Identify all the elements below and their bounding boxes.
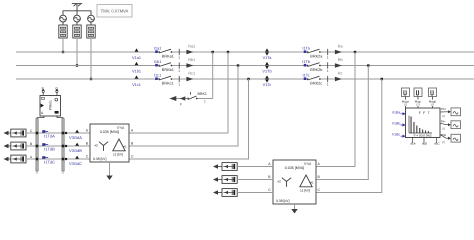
ground T2 [294,204,296,210]
svg-text:V1Ta: V1Ta [263,55,273,60]
breaker BRK2c [307,76,323,85]
svg-text:Ph+: Ph+ [441,107,447,111]
node source tap c [90,78,92,80]
svg-text:B: B [30,142,32,146]
voltmeter probe V3GdC [75,156,79,159]
svg-text:Ra1: Ra1 [188,45,195,49]
voltmeter probe V3GdB [75,143,79,146]
svg-text:V3GdB: V3GdB [69,148,82,153]
phase output Ph0 to monitor box [440,133,461,144]
output channel box Mag+ [402,88,410,108]
AC source Src2 [74,15,81,22]
svg-text:(7): (7) [442,115,445,118]
svg-text:0.38 [kV]: 0.38 [kV] [93,157,106,161]
wire bus phase B [16,65,474,67]
label box "TMV, 0.07MVA" [97,5,132,18]
wire source a drop to bus [62,38,64,52]
svg-text:BRK2b: BRK2b [310,68,322,72]
svg-text:V1Tb: V1Tb [262,69,271,74]
svg-text:V1Ba: V1Ba [392,110,401,114]
node tap T1 phase b [237,64,239,66]
svg-text:(7): (7) [442,128,445,131]
svg-text:P: P [42,86,44,90]
node right bar b [62,145,65,148]
dc output dcA [410,138,415,146]
transformer T2 [273,160,316,204]
svg-text:DYg1: DYg1 [117,125,125,129]
surge arrester T2 phase b [213,177,218,181]
voltmeter probe V1c1 [132,75,141,87]
node tap T2 phase c [381,78,383,80]
surge arrester left phase b [4,144,9,148]
busbar left [36,119,38,172]
wire between bars row a + ammeter [38,132,62,134]
wire PMet1 to right bar [57,116,63,119]
svg-text:V1Bb: V1Bb [392,122,401,126]
pin P of PMet1 [42,86,45,95]
svg-text:1: 1 [327,55,329,59]
svg-text:I1TdA: I1TdA [44,133,55,138]
svg-text:11 [kV]: 11 [kV] [300,188,310,192]
svg-text:1: 1 [178,55,180,59]
svg-text:#2: #2 [278,180,282,184]
FFT block U-FFT [406,108,441,138]
breaker BRK2b [307,63,323,72]
svg-text:DYg1: DYg1 [304,161,312,165]
wire T1 c riser [129,79,249,159]
ground (top of sources) [72,4,82,11]
pin Q of PMet1 [55,86,58,95]
output channel box Mag0 [429,88,437,108]
breaker BRKa1 [158,49,174,58]
svg-text:V1Tc: V1Tc [263,82,272,87]
ground arrow (fault) [170,96,177,101]
data label V1Bb (FFT input) [392,122,406,127]
phase output Ph- to monitor box [440,120,461,131]
svg-text:#2: #2 [95,144,99,148]
ammeter arrow Rc1 [186,77,193,82]
svg-text:1: 1 [204,100,206,104]
svg-text:I1TdB: I1TdB [44,146,55,151]
svg-text:Ph0: Ph0 [441,133,447,137]
breaker state tick [178,62,180,68]
svg-text:V3GdA: V3GdA [69,135,82,140]
voltmeter probe V1a1 [132,48,141,60]
svg-text:dcA: dcA [410,141,415,145]
svg-text:Rc: Rc [338,72,343,76]
voltmeter probe V1Ta [263,48,273,60]
wire source b drop to bus [76,38,78,66]
wire right bar to T1 b [64,145,90,147]
AC source Src3 [88,15,95,22]
wire right bar to T1 c [64,158,90,160]
wire bus phase A [16,51,474,53]
breaker BRK2a [307,49,324,58]
voltmeter probe V1b1 [132,62,141,74]
svg-text:Rb1: Rb1 [188,58,195,62]
surge arrester left phase c [4,157,9,161]
wire T2 b riser [316,66,368,180]
svg-text:F = 50.0 [Hz]: F = 50.0 [Hz] [414,134,432,138]
svg-text:Rb: Rb [338,58,343,62]
svg-text:#1: #1 [310,181,314,185]
wire bus phase C [16,78,474,80]
node tap T1 phase c [247,78,249,80]
svg-text:I1TdC: I1TdC [44,159,55,164]
surge arrester left phase a [4,131,9,135]
surge arrester T2 phase c [213,190,218,194]
svg-text:BRK2c: BRK2c [310,82,322,86]
svg-text:BRK2a: BRK2a [310,55,323,59]
breaker BRKb1 [158,63,174,72]
breaker state tick [178,49,180,55]
wire T2 a riser [316,52,355,167]
svg-text:V1c1: V1c1 [132,82,141,87]
node source tap a [62,51,64,53]
svg-text:Ph-: Ph- [441,120,446,124]
node left bar c [36,158,39,161]
svg-text:0.38 [kV]: 0.38 [kV] [276,199,289,203]
node left bar b [36,145,39,148]
dc output dcC [434,138,440,146]
node tap T1 phase a [227,51,229,53]
output channel box Mag- [414,88,422,108]
node right bar c [62,158,65,161]
svg-text:1: 1 [327,69,329,73]
data label V1Bc (FFT input) [392,133,406,138]
svg-text:V1Bc: V1Bc [392,133,401,137]
svg-text:BRKb1: BRKb1 [162,68,174,72]
wire fault branch vertical [212,52,214,99]
ground T1 [109,162,111,176]
svg-text:Rc1: Rc1 [188,72,195,76]
node tap T2 phase b [367,64,369,66]
wire between bars row c + ammeter [38,158,62,160]
voltmeter probe V1Tc [263,75,272,87]
source impedance box Z3 [90,22,92,25]
breaker BRKc1 [158,76,174,85]
svg-text:TMV, 0.07MVA: TMV, 0.07MVA [101,9,129,14]
wire PMet1 to left bar [37,116,44,119]
source impedance box Z2 [76,22,78,25]
svg-text:(7): (7) [442,141,445,144]
node tap T2 phase a [354,51,356,53]
breaker state tick [327,76,329,82]
svg-text:#1: #1 [123,145,127,149]
svg-text:1: 1 [178,82,180,86]
dc output dcB [422,138,427,146]
AC source Src1 [60,15,67,22]
voltmeter probe V3GdA [75,130,79,133]
phase output Ph+ to monitor box [440,107,461,118]
svg-text:V1b1: V1b1 [132,69,141,74]
transformer T1 [90,124,129,162]
svg-text:1: 1 [178,69,180,73]
svg-text:dcB: dcB [422,141,427,145]
wire T1 a riser [129,52,228,133]
node source tap b [76,64,78,66]
svg-text:V1a1: V1a1 [132,55,141,60]
ammeter arrow Ra [335,50,342,55]
ammeter arrow Ra1 [186,50,193,55]
ammeter arrow Rb [335,63,342,68]
multimeter PMet1 [40,96,61,117]
busbar right [62,119,64,172]
svg-text:BRKc1: BRKc1 [162,82,174,86]
ammeter arrow Rb1 [186,63,193,68]
svg-text:0.035 [MVA]: 0.035 [MVA] [285,166,305,170]
node fault tap on bus A [212,51,214,53]
voltmeter probe V1Tb [262,62,271,74]
svg-text:1: 1 [327,82,329,86]
node left bar a [36,132,39,135]
ammeter arrow fault [180,96,186,100]
wire common node of sources [63,11,91,15]
svg-text:BRKa1: BRKa1 [162,55,174,59]
data label V1Ba (FFT input) [392,110,406,115]
node right bar a [62,132,65,135]
wire between bars row b + ammeter [38,145,62,147]
wire T1 b riser [129,66,238,147]
wire right bar to T1 a [64,132,90,134]
svg-text:F: F [180,103,182,107]
ammeter arrow Rc [335,77,342,82]
source impedance box Z1 [62,22,64,25]
surge arrester T2 phase a [213,164,218,168]
svg-text:PMet1: PMet1 [49,100,53,110]
wire source c drop to bus [90,38,92,79]
breaker state tick [327,62,329,68]
svg-text:BRK1: BRK1 [198,92,207,96]
breaker state tick [327,49,329,55]
svg-text:0.035 [MVA]: 0.035 [MVA] [100,130,120,134]
svg-text:V3GdC: V3GdC [69,161,82,166]
svg-text:F F T: F F T [419,111,431,115]
svg-text:11 [kV]: 11 [kV] [113,152,123,156]
svg-text:dcC: dcC [434,141,440,145]
breaker BRK1 [187,92,207,104]
breaker state tick [178,76,180,82]
wire T2 c riser [316,79,382,193]
wire fault branch horizontal [170,98,213,100]
